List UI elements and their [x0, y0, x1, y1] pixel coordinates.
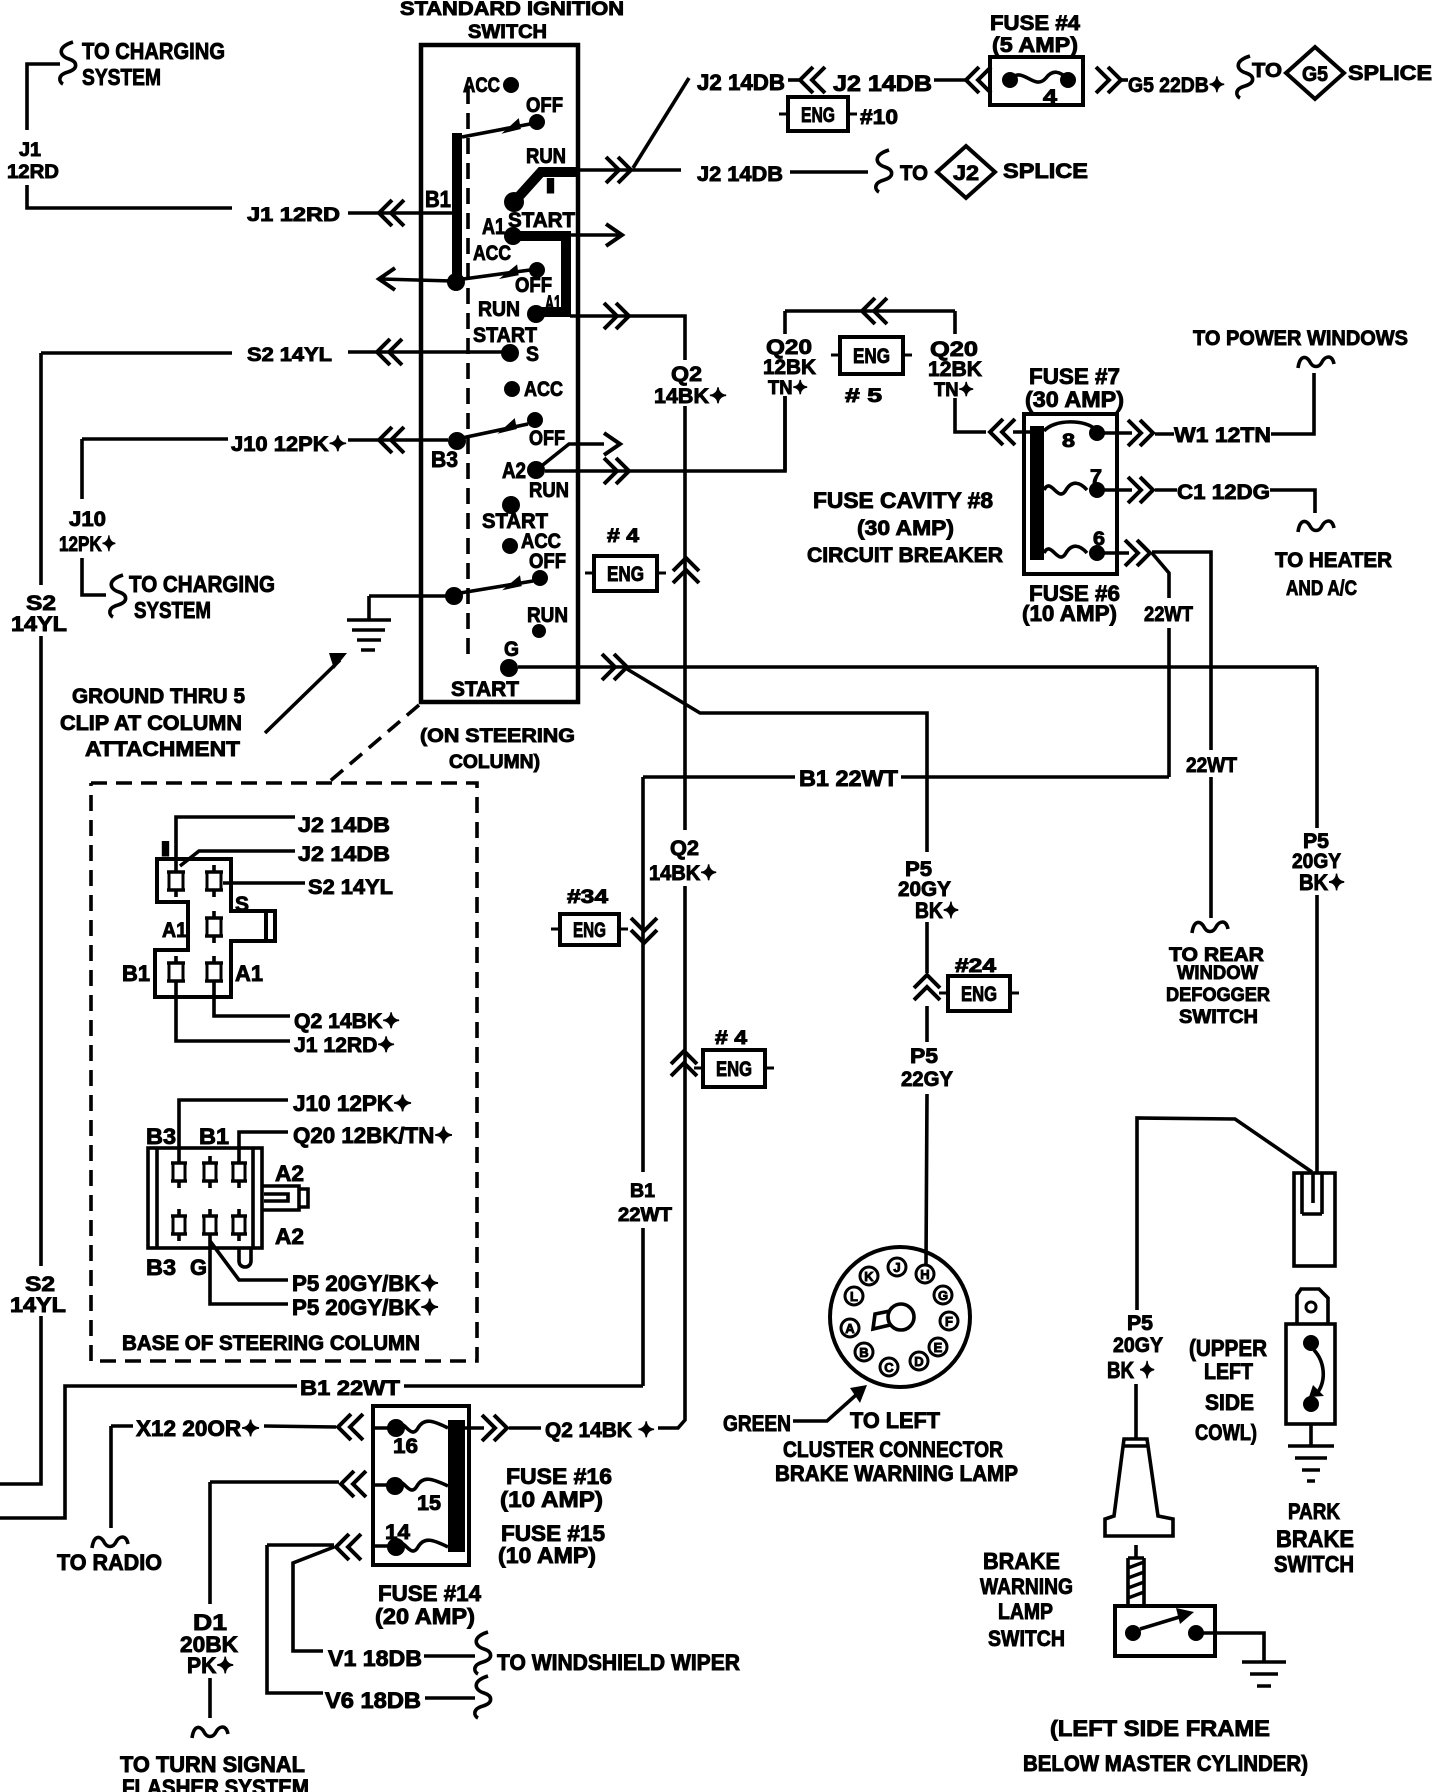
- svg-text:P5: P5: [910, 1045, 938, 1068]
- wire fuse14 row: [267, 1545, 334, 1693]
- svg-text:I: I: [545, 175, 556, 198]
- svg-text:WARNING: WARNING: [980, 1574, 1073, 1599]
- svg-text:C: C: [884, 1360, 894, 1375]
- svg-text:RUN: RUN: [529, 479, 569, 502]
- svg-text:TN✦: TN✦: [768, 378, 808, 399]
- svg-text:6: 6: [1093, 529, 1105, 550]
- wire pin G to P5 (vert): [210, 1241, 288, 1304]
- svg-text:Q20 12BK/TN✦: Q20 12BK/TN✦: [293, 1123, 453, 1148]
- label Q20 12BK TN left: [763, 336, 816, 399]
- svg-text:OFF: OFF: [529, 550, 566, 573]
- svg-text:ACC: ACC: [473, 242, 511, 265]
- cluster key symbol: [888, 1304, 914, 1330]
- pin B3-2: [171, 1209, 187, 1241]
- label (LEFT SIDE FRAME BELOW MASTER CYLINDER): [1023, 1716, 1308, 1776]
- svg-text:TO: TO: [900, 162, 928, 185]
- label TO TURN SIGNAL FLASHER SYSTEM: [120, 1752, 309, 1792]
- fuse 14 element: [387, 1538, 405, 1556]
- wire X12 20OR row: [111, 1426, 336, 1528]
- svg-text:(10 AMP): (10 AMP): [1022, 601, 1117, 626]
- svg-text:16: 16: [393, 1435, 418, 1458]
- connector chevrons A2 upper: [604, 303, 629, 329]
- svg-text:B1: B1: [122, 961, 150, 986]
- screw thread symbol: [1128, 1545, 1144, 1604]
- svg-text:H: H: [920, 1267, 929, 1282]
- svg-text:V1 18DB: V1 18DB: [328, 1646, 422, 1671]
- svg-text:V6 18DB: V6 18DB: [325, 1688, 421, 1713]
- chevrons C1: [1128, 477, 1153, 503]
- contact dot B3 wiper: [448, 432, 466, 450]
- svg-text:PK✦: PK✦: [187, 1653, 234, 1678]
- svg-text:B3: B3: [146, 1255, 176, 1280]
- svg-text:RUN: RUN: [526, 145, 566, 168]
- svg-text:K: K: [864, 1269, 874, 1284]
- splice symbol J2: [876, 150, 892, 192]
- splice diamond J2: [937, 146, 995, 198]
- svg-text:14BK✦: 14BK✦: [654, 385, 727, 408]
- cluster pin C: [880, 1358, 898, 1376]
- wire A2 upper output: [570, 316, 685, 358]
- label FUSE #14 (20 AMP): [375, 1581, 482, 1629]
- svg-text:G5: G5: [1302, 63, 1328, 86]
- svg-text:8: 8: [1062, 431, 1075, 452]
- wire OFF diagonal output: [539, 444, 604, 468]
- wire pin G to P5 (diag): [210, 1241, 288, 1280]
- fuse 16 element: [387, 1419, 405, 1437]
- cluster connector circle: [830, 1247, 970, 1387]
- svg-text:S: S: [526, 343, 539, 366]
- cluster pin J: [888, 1258, 906, 1276]
- svg-text:14YL: 14YL: [11, 613, 67, 636]
- svg-text:(10 AMP): (10 AMP): [498, 1543, 596, 1568]
- pin A2: [231, 1209, 247, 1241]
- plug upper left side cowl: [1294, 1173, 1335, 1266]
- fuse cavity block box: [1024, 414, 1117, 574]
- svg-text:A1: A1: [482, 214, 505, 239]
- fuse #4 element: [1002, 72, 1018, 88]
- splice symbol windshield: [475, 1632, 491, 1674]
- pin S: [205, 865, 223, 897]
- wire S2 14YL row: [41, 352, 504, 353]
- wire Q20 bridge: [785, 311, 986, 471]
- wire fuse8 output W1: [1104, 373, 1314, 434]
- svg-text:GREEN: GREEN: [723, 1411, 791, 1436]
- svg-text:12PK✦: 12PK✦: [59, 533, 116, 556]
- svg-text:COLUMN): COLUMN): [449, 752, 540, 773]
- wire pin B3 to J10 12PK: [179, 1100, 288, 1156]
- svg-text:A1: A1: [545, 292, 561, 315]
- splice symbol power windows: [1298, 357, 1334, 368]
- pin B1-2: [202, 1156, 218, 1188]
- label S2 14YL (lower): [10, 1273, 66, 1317]
- svg-text:B: B: [859, 1345, 868, 1360]
- chevrons up on Q2 line: [673, 558, 699, 583]
- svg-text:SYSTEM: SYSTEM: [82, 64, 161, 90]
- chevrons into fuse7: [990, 419, 1015, 445]
- svg-text:BRAKE WARNING LAMP: BRAKE WARNING LAMP: [775, 1461, 1018, 1486]
- svg-text:AND A/C: AND A/C: [1286, 577, 1357, 600]
- svg-text:X12 20OR✦: X12 20OR✦: [136, 1416, 260, 1441]
- chevrons W1: [1128, 420, 1153, 446]
- svg-text:#10: #10: [860, 106, 898, 129]
- svg-text:TO TURN SIGNAL: TO TURN SIGNAL: [120, 1752, 305, 1777]
- contact dot ACC 3: [504, 381, 520, 397]
- label TO HEATER AND A/C: [1275, 549, 1392, 600]
- wire V6 18DB: [425, 1696, 475, 1700]
- svg-text:GROUND THRU 5: GROUND THRU 5: [72, 685, 245, 708]
- fuse #4 box: [990, 57, 1083, 105]
- contact dot A2: [527, 461, 545, 479]
- wire pin I to J2 14DB b: [180, 851, 295, 866]
- svg-text:# 4: # 4: [607, 526, 640, 547]
- ground clip arrow: [265, 660, 340, 733]
- svg-text:BELOW MASTER CYLINDER): BELOW MASTER CYLINDER): [1023, 1751, 1308, 1776]
- contact dot START 3: [502, 496, 520, 514]
- wire pin B1 to J1 12RD: [176, 988, 290, 1041]
- svg-text:CLUSTER CONNECTOR: CLUSTER CONNECTOR: [783, 1437, 1003, 1462]
- svg-text:B1: B1: [630, 1181, 655, 1202]
- svg-text:E: E: [934, 1340, 943, 1355]
- svg-text:ACC: ACC: [524, 378, 563, 401]
- splice symbol to charging system 2: [110, 575, 126, 617]
- connector inner walls: [157, 1148, 253, 1248]
- svg-text:S2: S2: [26, 592, 56, 615]
- svg-text:C1 12DG: C1 12DG: [1177, 481, 1270, 504]
- svg-text:SWITCH: SWITCH: [988, 1626, 1065, 1651]
- wire RUN output to J2: [578, 168, 681, 172]
- contact dot ACC 4: [502, 538, 518, 554]
- pin G: [202, 1209, 218, 1241]
- chevrons up on Q2 line 2: [671, 1051, 697, 1076]
- svg-text:B3: B3: [431, 447, 458, 472]
- svg-text:J10 12PK✦: J10 12PK✦: [293, 1091, 412, 1116]
- contact dot OFF 3: [527, 412, 543, 428]
- wire output left arrow: [381, 279, 452, 281]
- wire plug to boot branch: [1137, 1118, 1312, 1310]
- svg-text:20GY: 20GY: [1113, 1334, 1163, 1357]
- wire diagonal to J2 14DB row1: [633, 78, 689, 168]
- pin mid: [205, 911, 223, 943]
- svg-text:J10: J10: [69, 508, 106, 531]
- connector chevrons J1: [379, 200, 404, 226]
- svg-text:START: START: [451, 678, 519, 701]
- svg-text:CIRCUIT BREAKER: CIRCUIT BREAKER: [807, 544, 1003, 567]
- svg-text:12BK: 12BK: [763, 356, 816, 379]
- boot connector cone: [1105, 1439, 1173, 1536]
- wire to J2 splice: [790, 170, 868, 174]
- contact dot ground wiper: [445, 587, 463, 605]
- svg-text:22GY: 22GY: [901, 1068, 953, 1091]
- cluster pin E: [929, 1338, 947, 1356]
- svg-text:#34: #34: [567, 887, 609, 908]
- svg-text:J: J: [893, 1260, 900, 1275]
- bus bar fuse block (thick): [448, 1420, 465, 1552]
- svg-text:TO RADIO: TO RADIO: [57, 1550, 162, 1575]
- svg-text:ENG: ENG: [573, 919, 606, 942]
- svg-text:WINDOW: WINDOW: [1177, 963, 1258, 984]
- wiper arrow 3: [457, 424, 528, 439]
- svg-text:TO CHARGING: TO CHARGING: [82, 38, 225, 64]
- wire fuse16 output Q2: [465, 1426, 541, 1430]
- connector tail: [239, 1248, 251, 1267]
- fuse 6 element: [1044, 546, 1087, 557]
- ENG #10 box: [788, 97, 848, 131]
- label P5 20GY BK (right): [1292, 830, 1345, 895]
- svg-text:ENG: ENG: [961, 983, 997, 1006]
- park brake contacts: [1303, 1335, 1319, 1351]
- dashed leader to base of column box: [329, 705, 419, 782]
- cluster pin B: [855, 1343, 873, 1361]
- svg-text:# 4: # 4: [715, 1028, 748, 1049]
- label (UPPER LEFT SIDE COWL): [1189, 1335, 1267, 1445]
- svg-text:LEFT: LEFT: [1204, 1359, 1253, 1384]
- wire pin A1 to Q2 14BK: [214, 988, 290, 1016]
- park brake connector cap: [1297, 1289, 1328, 1324]
- label Q20 12BK TN right: [928, 338, 982, 401]
- svg-text:7: 7: [1090, 467, 1102, 488]
- svg-text:RUN: RUN: [527, 604, 568, 627]
- label FUSE #16 (10 AMP): [500, 1464, 612, 1512]
- svg-text:12RD: 12RD: [7, 162, 59, 183]
- svg-text:12BK: 12BK: [928, 358, 982, 381]
- connector tab: [262, 1186, 308, 1210]
- label ON STEERING COLUMN: [420, 726, 575, 773]
- svg-text:ATTACHMENT: ATTACHMENT: [85, 738, 240, 761]
- label FUSE CAVITY #8 (30 AMP) CIRCUIT BREAKER: [807, 488, 1003, 567]
- cluster pin F: [940, 1312, 958, 1330]
- svg-text:ENG: ENG: [801, 104, 835, 127]
- svg-text:A2: A2: [275, 1161, 304, 1186]
- svg-text:FLASHER SYSTEM: FLASHER SYSTEM: [122, 1775, 309, 1792]
- svg-text:22WT: 22WT: [1186, 754, 1237, 777]
- svg-text:(10 AMP): (10 AMP): [500, 1487, 603, 1512]
- splice symbol heater: [1298, 521, 1334, 532]
- label P5 20GY BK (mid): [898, 858, 959, 923]
- svg-text:J2 14DB: J2 14DB: [697, 163, 783, 186]
- chevrons down on B1 line: [631, 918, 657, 943]
- svg-text:COWL): COWL): [1195, 1420, 1257, 1445]
- label STANDARD IGNITION SWITCH: [400, 0, 624, 43]
- pin A1: [205, 956, 223, 988]
- label J1 12RD (vertical): [7, 140, 59, 183]
- svg-text:(20 AMP): (20 AMP): [375, 1604, 475, 1629]
- cluster pin H: [916, 1265, 934, 1283]
- splice symbol radio: [92, 1537, 128, 1548]
- label TO CHARGING SYSTEM (mid): [129, 571, 275, 623]
- svg-text:14: 14: [385, 1521, 410, 1544]
- pin Q20: [231, 1156, 247, 1188]
- svg-text:W1 12TN: W1 12TN: [1174, 424, 1271, 447]
- svg-text:15: 15: [417, 1492, 441, 1515]
- label PARK BRAKE SWITCH: [1274, 1499, 1354, 1577]
- cluster pin G: [934, 1286, 952, 1304]
- wire park brake to ground: [1309, 1424, 1313, 1446]
- wire S2 14YL long vertical: [0, 353, 41, 1484]
- bus bar (thick): [1030, 426, 1044, 560]
- wire A1 START output arrow: [570, 233, 620, 237]
- svg-text:FUSE #16: FUSE #16: [506, 1464, 612, 1489]
- chevrons fuse6: [1125, 540, 1150, 566]
- svg-text:B1 22WT: B1 22WT: [799, 766, 899, 791]
- label D1 20BK PK: [180, 1610, 238, 1678]
- svg-text:ENG: ENG: [716, 1058, 752, 1081]
- contact dot OFF 4: [532, 570, 548, 586]
- pin B1: [167, 956, 185, 988]
- connector chevrons J10: [379, 427, 404, 453]
- connector chevrons A2: [604, 458, 629, 484]
- cluster pin A: [841, 1319, 859, 1337]
- label FUSE #4 (5 AMP): [990, 12, 1080, 57]
- contact dot ACC 1: [503, 77, 519, 93]
- svg-text:ENG: ENG: [853, 345, 890, 368]
- svg-text:P5 20GY/BK✦: P5 20GY/BK✦: [292, 1271, 439, 1296]
- upper column connector body: [155, 859, 275, 997]
- svg-text:A1: A1: [235, 961, 263, 986]
- svg-text:B1: B1: [425, 186, 451, 212]
- label TO REAR WINDOW DEFOGGER SWITCH: [1166, 945, 1270, 1028]
- dashed box base of steering column: [91, 783, 477, 1361]
- svg-text:S2 14YL: S2 14YL: [247, 345, 332, 366]
- wire A2 output: [545, 396, 785, 471]
- wiper arrow 4: [454, 581, 533, 594]
- wire B1 22WT horizontal mid: [643, 775, 1169, 779]
- svg-text:PARK: PARK: [1288, 1499, 1340, 1524]
- svg-text:BASE OF STEERING COLUMN: BASE OF STEERING COLUMN: [122, 1332, 420, 1355]
- svg-text:START: START: [508, 209, 575, 232]
- label S2 14YL (mid): [11, 592, 67, 636]
- wire D1 fuse15 row: [210, 1482, 339, 1718]
- contact dot S: [501, 344, 519, 362]
- svg-text:J10 12PK✦: J10 12PK✦: [231, 433, 347, 456]
- svg-text:SPLICE: SPLICE: [1348, 62, 1432, 85]
- label P5 20GY BK (boot): [1107, 1312, 1163, 1383]
- svg-text:J2 14DB: J2 14DB: [697, 70, 785, 95]
- wire pin S to S2 14YL: [223, 881, 305, 885]
- brake warning lamp switch box: [1115, 1606, 1215, 1656]
- wire B1 22WT vertical trunk: [641, 777, 645, 1386]
- connector chevrons S2: [377, 339, 402, 365]
- svg-text:STANDARD IGNITION: STANDARD IGNITION: [400, 0, 624, 20]
- svg-text:RUN: RUN: [478, 298, 520, 321]
- connector chevrons RUN out: [606, 157, 631, 183]
- svg-text:G: G: [190, 1255, 207, 1280]
- wire B1 22WT bottom from page edge: [0, 1386, 643, 1518]
- splice symbol defogger: [1192, 922, 1228, 933]
- fuse4 output chevrons: [1096, 67, 1121, 93]
- svg-text:Q2: Q2: [670, 837, 699, 860]
- ENG #4 box (second): [703, 1050, 765, 1087]
- svg-text:A2: A2: [502, 458, 526, 483]
- svg-text:FUSE #4: FUSE #4: [990, 12, 1080, 35]
- fuse 15 element: [386, 1477, 404, 1495]
- standard ignition switch box: [421, 45, 578, 702]
- brake switch lever arrow: [1140, 1615, 1186, 1629]
- svg-text:TO LEFT: TO LEFT: [850, 1408, 941, 1433]
- contact dot OFF 2: [529, 262, 545, 278]
- splice symbol G5: [1237, 56, 1253, 98]
- brake switch contacts: [1125, 1625, 1141, 1641]
- svg-text:G: G: [504, 638, 519, 661]
- svg-text:BK ✦: BK ✦: [1107, 1357, 1155, 1383]
- cluster pin L: [845, 1287, 863, 1305]
- svg-text:22WT: 22WT: [1144, 603, 1193, 626]
- svg-text:A2: A2: [275, 1224, 304, 1249]
- svg-text:CLIP AT COLUMN: CLIP AT COLUMN: [60, 712, 242, 735]
- splice diamond G5: [1286, 47, 1344, 99]
- svg-text:(30 AMP): (30 AMP): [857, 517, 954, 540]
- park brake switch body: [1286, 1324, 1335, 1424]
- label B1 22WT (vertical pair): [618, 1181, 672, 1226]
- svg-text:Q2: Q2: [671, 363, 702, 386]
- svg-text:BRAKE: BRAKE: [1276, 1526, 1354, 1553]
- wire G START output: [518, 665, 1317, 669]
- svg-text:SWITCH: SWITCH: [468, 22, 547, 43]
- svg-text:FUSE CAVITY #8: FUSE CAVITY #8: [813, 488, 993, 513]
- chevrons Q20 bridge: [862, 298, 887, 324]
- cluster pin K: [860, 1267, 878, 1285]
- svg-text:I: I: [160, 838, 171, 861]
- ENG #24 box: [948, 976, 1010, 1011]
- svg-text:#24: #24: [955, 956, 997, 977]
- svg-text:14BK✦: 14BK✦: [649, 862, 717, 885]
- ENG #4 box (first): [594, 556, 657, 591]
- svg-text:22WT: 22WT: [618, 1205, 672, 1226]
- ground symbol park brake: [1288, 1446, 1334, 1481]
- label J10 12PK (vertical): [59, 508, 116, 556]
- B1 feed bar (thick): [452, 133, 462, 287]
- label P5 22GY: [901, 1045, 953, 1091]
- contact dot OFF 1: [529, 114, 545, 130]
- park brake lever arc: [1314, 1350, 1323, 1392]
- svg-text:J1 12RD: J1 12RD: [247, 205, 340, 226]
- connector chevrons G out: [602, 654, 627, 680]
- svg-text:DEFOGGER: DEFOGGER: [1166, 985, 1270, 1006]
- wire fuse7 output C1: [1104, 490, 1315, 513]
- svg-text:SIDE: SIDE: [1205, 1390, 1254, 1415]
- svg-text:S2: S2: [25, 1273, 55, 1296]
- svg-text:4: 4: [1043, 87, 1058, 108]
- ENG #34 box: [560, 914, 619, 945]
- svg-text:G5 22DB✦: G5 22DB✦: [1128, 74, 1225, 97]
- switch lever RUN (thick): [504, 192, 524, 212]
- chevrons fuse16 out: [482, 1415, 507, 1441]
- svg-text:SWITCH: SWITCH: [1179, 1007, 1258, 1028]
- wire Q2 14BK vertical trunk: [658, 358, 685, 1428]
- svg-text:Q2 14BK ✦: Q2 14BK ✦: [545, 1419, 655, 1442]
- wiper arrow 2: [456, 270, 530, 280]
- pin B3-1: [171, 1156, 187, 1188]
- svg-text:TO CHARGING: TO CHARGING: [129, 571, 275, 597]
- svg-text:OFF: OFF: [529, 427, 565, 450]
- svg-text:14YL: 14YL: [10, 1294, 66, 1317]
- wire 22WT stub from fuse6: [1152, 553, 1169, 777]
- svg-text:TN✦: TN✦: [934, 380, 974, 401]
- contact dot B1 wiper 2: [447, 273, 465, 291]
- label FUSE #15 (10 AMP): [498, 1521, 605, 1568]
- svg-text:TO POWER WINDOWS: TO POWER WINDOWS: [1193, 327, 1408, 350]
- ENG #5 box: [840, 337, 903, 374]
- wiper arrow B1 to OFF: [462, 124, 530, 137]
- wire P5 20GY BK diagonal branch: [627, 669, 927, 1264]
- svg-text:TO WINDSHIELD WIPER: TO WINDSHIELD WIPER: [497, 1650, 740, 1675]
- svg-text:TO HEATER: TO HEATER: [1275, 549, 1392, 572]
- svg-text:FUSE #7: FUSE #7: [1029, 364, 1120, 389]
- connector chevrons row1: [788, 78, 800, 82]
- wire boot lead: [1134, 1384, 1138, 1439]
- chevrons up on P5 line: [914, 975, 940, 1000]
- splice symbol to charging system: [60, 42, 76, 84]
- svg-text:BK✦: BK✦: [915, 898, 959, 923]
